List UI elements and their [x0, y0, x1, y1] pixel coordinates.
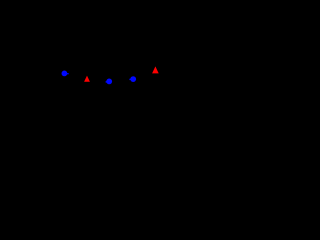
data point P4 (blue circle) — [129, 76, 136, 82]
data point P3 (blue circle) — [106, 79, 113, 85]
data point P5 (red triangle) — [152, 66, 159, 73]
data point P1 (blue circle) — [62, 71, 69, 77]
chart canvas — [0, 0, 218, 141]
data point P2 (red triangle) — [84, 76, 90, 82]
